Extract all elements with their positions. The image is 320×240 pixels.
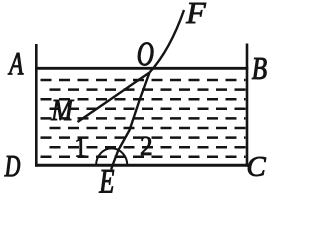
water shading dashed rows [41,80,246,157]
label M [51,100,74,120]
label D [5,156,21,176]
angle arc at E [96,148,127,165]
label F [186,3,206,23]
tank bottom line DC [35,164,248,167]
label B [252,58,267,79]
refracted ray OE [111,73,149,170]
label C [248,157,266,176]
label O [138,43,153,66]
label 1 [77,138,85,157]
tank left wall [35,44,38,167]
label 2 [141,137,151,155]
incident ray FO [150,10,185,73]
ray OM in water [78,73,150,123]
label E [99,170,114,193]
water surface line AB [35,67,248,70]
tank right wall [246,44,249,167]
label A [8,53,23,74]
